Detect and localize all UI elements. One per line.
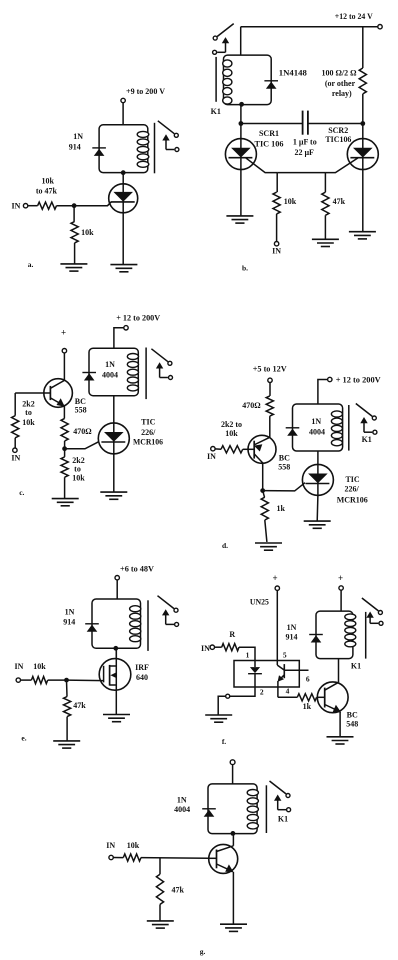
- relay coil K1 d: [293, 404, 343, 451]
- svg-text:22 µF: 22 µF: [294, 148, 314, 157]
- opto LED f: [254, 661, 256, 668]
- svg-text:6: 6: [306, 675, 310, 684]
- resistor 2k2-10k d: [221, 446, 243, 453]
- wire + to transistor c: [63, 353, 65, 381]
- svg-text:K1: K1: [351, 662, 361, 671]
- resistor 2k2-10k input c: [14, 393, 16, 416]
- transistor BC558 c: [44, 379, 73, 408]
- wire node to SCR gate c: [65, 442, 99, 449]
- ground 47k b: [312, 238, 339, 240]
- wire resistor to ground c: [64, 477, 66, 498]
- node capacitor right b: [360, 121, 365, 126]
- svg-text:K1: K1: [278, 815, 288, 824]
- ground SCR2 b: [349, 231, 376, 233]
- svg-text:1: 1: [246, 651, 250, 660]
- transistor BC548 f: [317, 682, 348, 713]
- diode 1N914 a: [92, 147, 106, 149]
- wire emitter to ground g: [232, 872, 234, 924]
- ground pin2 f: [205, 714, 232, 716]
- wire rail to 47k b: [324, 173, 326, 193]
- resistor 47k e: [66, 680, 69, 696]
- svg-text:f.: f.: [222, 737, 226, 746]
- svg-text:BC: BC: [279, 454, 290, 463]
- wire supply to coil box a: [122, 103, 124, 125]
- relay armature bar e: [147, 600, 149, 651]
- svg-text:IN: IN: [106, 841, 115, 850]
- diode 1N4004 g: [202, 808, 216, 810]
- SCR1 gate wire b: [246, 158, 278, 173]
- svg-text:10k: 10k: [33, 662, 46, 671]
- resistor R f: [222, 644, 239, 651]
- wire cap left b: [241, 123, 303, 125]
- relay coil K a: [99, 125, 148, 173]
- svg-text:SCR2: SCR2: [328, 126, 348, 135]
- svg-text:d.: d.: [222, 541, 228, 550]
- relay contact b (mirrored): [217, 24, 234, 37]
- svg-text:K1: K1: [362, 435, 372, 444]
- wire cap right b: [308, 123, 363, 125]
- svg-text:10k: 10k: [284, 197, 297, 206]
- relay contact f: [362, 598, 379, 611]
- supply terminal a: [121, 98, 125, 102]
- diode 1N914 e: [85, 623, 99, 625]
- input terminal IN d: [211, 447, 215, 451]
- svg-text:4004: 4004: [102, 371, 118, 380]
- svg-text:R: R: [229, 630, 235, 639]
- top supply wire b: [241, 26, 378, 28]
- resistor 10k pulldown a: [73, 206, 75, 222]
- wire IN to resistor a: [28, 205, 38, 207]
- wire + to coil box f: [340, 590, 342, 611]
- svg-text:2: 2: [260, 688, 264, 697]
- SCR TIC226 d: [302, 464, 333, 495]
- svg-text:IN: IN: [15, 662, 24, 671]
- resistor 47k b: [322, 192, 329, 215]
- svg-text:+6 to 48V: +6 to 48V: [120, 563, 155, 573]
- svg-text:g.: g.: [200, 947, 206, 956]
- svg-text:IN: IN: [207, 452, 216, 461]
- relay armature bar a: [154, 123, 156, 174]
- wire rail to 10k b: [276, 173, 278, 193]
- supply terminal e: [115, 576, 119, 580]
- svg-text:4004: 4004: [174, 805, 190, 814]
- ground 1k d: [255, 542, 282, 544]
- svg-text:4: 4: [286, 687, 290, 696]
- svg-text:TIC: TIC: [345, 475, 359, 484]
- svg-text:1N: 1N: [73, 132, 83, 141]
- wire SCR2 cathode to ground b: [362, 169, 364, 231]
- svg-text:548: 548: [346, 720, 358, 729]
- svg-text:558: 558: [278, 463, 290, 472]
- wire IN to 10k g: [113, 857, 123, 859]
- supply terminal d left: [268, 378, 272, 382]
- svg-text:c.: c.: [19, 488, 24, 497]
- ground under SCR a: [110, 264, 137, 266]
- svg-text:100 Ω/2 Ω: 100 Ω/2 Ω: [322, 68, 358, 77]
- wire SCR cathode to ground d: [316, 495, 319, 521]
- svg-text:UN25: UN25: [250, 598, 269, 607]
- svg-text:1k: 1k: [303, 702, 312, 711]
- wire node to collector g: [232, 833, 234, 845]
- svg-text:K1: K1: [211, 107, 221, 116]
- supply terminal c: [124, 326, 128, 330]
- resistor 10k e: [31, 677, 47, 684]
- wire collector to coil f: [338, 659, 340, 683]
- svg-text:5: 5: [283, 651, 287, 660]
- node input junction a: [72, 203, 77, 208]
- wire R to opto LED f: [239, 647, 255, 660]
- wire 1k to ground d: [265, 520, 267, 542]
- node gate junction d: [260, 488, 265, 493]
- wire IN to R f: [215, 646, 222, 648]
- resistor 10k g: [123, 854, 141, 861]
- diode 1N4004 c: [82, 372, 96, 374]
- wire coil to SCR anode a: [122, 173, 124, 184]
- resistor 1k d: [263, 491, 265, 498]
- wire down to coil box b: [240, 27, 242, 55]
- terminal pin2 f: [226, 694, 230, 698]
- svg-text:1N: 1N: [65, 608, 75, 617]
- SCR2 gate wire b: [325, 158, 358, 173]
- diode 1N4148 b: [264, 80, 278, 82]
- svg-text:47k: 47k: [171, 886, 184, 895]
- svg-text:47k: 47k: [73, 701, 86, 710]
- svg-text:640: 640: [136, 673, 148, 682]
- wire resistor to node a: [57, 205, 75, 207]
- node coil bottom b: [239, 102, 244, 107]
- node gate junction e: [64, 678, 69, 683]
- wire pin2 to ground f: [218, 696, 225, 715]
- ground SCR c: [100, 491, 127, 493]
- gate rail b: [277, 172, 325, 174]
- ground left c: [52, 498, 79, 500]
- wire SCR1 cathode to ground b: [240, 169, 242, 216]
- svg-text:to: to: [74, 465, 81, 474]
- base wire c: [15, 392, 44, 394]
- svg-text:+ 12 to 200V: + 12 to 200V: [336, 375, 382, 385]
- resistor 10k-47k a: [38, 202, 57, 209]
- svg-text:470Ω: 470Ω: [73, 427, 92, 436]
- svg-text:+: +: [338, 573, 343, 583]
- wire IN to resistor d: [215, 448, 221, 450]
- relay coil K e: [92, 599, 141, 648]
- supply terminal b: [378, 25, 382, 29]
- wire coil to MOSFET drain e: [115, 648, 117, 659]
- svg-text:to 47k: to 47k: [36, 187, 58, 196]
- resistor 10k b: [273, 192, 280, 214]
- node: coil-SCR junction a: [121, 170, 126, 175]
- pin 6 base lead f: [284, 669, 308, 671]
- SCR TIC226 c: [98, 423, 129, 454]
- svg-text:TIC 106: TIC 106: [255, 139, 284, 148]
- node gate junction c: [62, 446, 67, 451]
- wire 10k to IN b: [276, 214, 278, 242]
- svg-text:47k: 47k: [333, 197, 346, 206]
- wire 470R to emitter d: [269, 416, 271, 437]
- svg-text:1N4148: 1N4148: [279, 69, 307, 78]
- relay contact e: [158, 596, 175, 609]
- SCR Q a: [109, 184, 138, 213]
- svg-text:914: 914: [63, 618, 75, 627]
- svg-text:+5 to 12V: +5 to 12V: [253, 364, 288, 374]
- wire node to SCR gate a: [74, 202, 111, 206]
- wire coil to SCR anode d: [317, 451, 319, 465]
- wire coil to SCR1 b: [240, 104, 242, 139]
- wire SCR cathode to ground a: [122, 214, 124, 265]
- pin 4 emitter wire f: [277, 681, 279, 697]
- relay armature bar g: [265, 785, 267, 833]
- wire node to SCR gate d: [263, 483, 305, 491]
- svg-text:TIC: TIC: [141, 417, 155, 426]
- wire 47k to ground e: [66, 717, 68, 741]
- svg-text:10k: 10k: [81, 228, 94, 237]
- wire IN to 10k e: [21, 679, 32, 681]
- node capacitor left b: [239, 121, 244, 126]
- ground SCR1 b: [226, 215, 253, 217]
- ground under resistor a: [60, 263, 87, 265]
- wire 10k to node e: [48, 679, 67, 681]
- svg-text:BC: BC: [347, 710, 358, 719]
- wire supply to coil box g: [232, 765, 234, 784]
- supply terminal g: [230, 760, 235, 765]
- wire collector to 470R c: [63, 406, 65, 419]
- relay contact a: [158, 121, 175, 134]
- optocoupler box f: [234, 661, 299, 688]
- svg-text:10k: 10k: [127, 841, 140, 850]
- wire + to phototransistor f: [276, 590, 278, 665]
- wire supply to coil box c: [114, 328, 124, 348]
- ground emitter g: [220, 923, 247, 925]
- wire supply to coil box e: [116, 580, 118, 599]
- svg-text:1N: 1N: [287, 623, 297, 632]
- relay armature bar b: [215, 57, 217, 102]
- wire 47k to ground g: [159, 904, 161, 921]
- input terminal IN c: [13, 448, 17, 452]
- relay armature bar f: [365, 612, 367, 659]
- opto phototransistor f: [283, 664, 285, 678]
- svg-text:470Ω: 470Ω: [242, 401, 261, 410]
- resistor 470R d: [266, 396, 273, 416]
- capacitor 1uF-22uF b: [302, 111, 304, 135]
- svg-text:IN: IN: [272, 247, 281, 256]
- pin 2 wire f: [230, 687, 255, 696]
- svg-text:IN: IN: [201, 644, 210, 653]
- svg-text:e.: e.: [21, 734, 26, 743]
- svg-text:1k: 1k: [276, 504, 285, 513]
- relay armature bar d: [348, 405, 350, 451]
- wire resistor to SCR2 b: [362, 94, 364, 139]
- svg-text:+ 12 to 200V: + 12 to 200V: [116, 313, 161, 323]
- MOSFET IRF640 e: [99, 659, 131, 691]
- svg-text:1N: 1N: [105, 360, 115, 369]
- wire 470R to node c: [64, 441, 66, 449]
- svg-text:2k2 to: 2k2 to: [221, 420, 242, 429]
- svg-text:relay): relay): [332, 89, 352, 98]
- resistor 470R c: [61, 418, 68, 441]
- svg-text:SCR1: SCR1: [259, 129, 279, 138]
- ground MOSFET e: [103, 714, 130, 716]
- svg-text:10k: 10k: [72, 474, 85, 483]
- svg-text:+: +: [273, 573, 278, 583]
- svg-text:IN: IN: [11, 454, 20, 463]
- svg-text:IN: IN: [12, 202, 21, 211]
- svg-text:914: 914: [69, 143, 81, 152]
- diode 1N4004 d: [286, 427, 300, 429]
- resistor 47k g: [159, 858, 161, 874]
- SCR1 TIC106 b: [225, 139, 256, 170]
- svg-text:226/: 226/: [344, 485, 359, 494]
- svg-text:10k: 10k: [41, 177, 54, 186]
- svg-text:+: +: [61, 328, 66, 338]
- relay coil K1 g: [208, 784, 257, 834]
- relay contact g: [270, 781, 287, 794]
- svg-text:4004: 4004: [309, 428, 325, 437]
- supply terminal d right: [328, 377, 332, 381]
- svg-text:1 µF to: 1 µF to: [293, 138, 317, 147]
- wire resistor to ground a: [74, 243, 76, 264]
- svg-text:558: 558: [75, 406, 87, 415]
- svg-text:a.: a.: [28, 260, 34, 269]
- node coil-MOSFET junction e: [113, 646, 118, 651]
- wire 10k to base g: [141, 857, 209, 860]
- svg-text:b.: b.: [242, 264, 248, 273]
- svg-text:10k: 10k: [22, 418, 35, 427]
- resistor 1k f: [278, 696, 297, 698]
- transistor NPN g: [209, 844, 238, 873]
- relay contact d: [356, 404, 373, 417]
- ground BC548 f: [327, 736, 354, 738]
- svg-text:to: to: [25, 408, 32, 417]
- wire supply to coil box d: [318, 380, 328, 405]
- svg-text:1N: 1N: [177, 796, 187, 805]
- wire coil box to SCR anode c: [113, 396, 115, 423]
- ground 47k g: [147, 920, 174, 922]
- svg-text:IRF: IRF: [135, 663, 149, 672]
- relay armature bar c: [145, 348, 147, 400]
- svg-text:MCR106: MCR106: [337, 496, 368, 505]
- wire emitter to ground f: [339, 712, 341, 737]
- ground 47k e: [53, 740, 80, 742]
- svg-text:MCR106: MCR106: [133, 438, 163, 447]
- relay coil K1 b: [224, 55, 272, 105]
- wire resistor to IN c: [14, 438, 16, 448]
- SCR2 TIC106 b: [347, 139, 378, 170]
- svg-text:+9 to 200 V: +9 to 200 V: [126, 86, 166, 96]
- wire collector to node d: [262, 463, 264, 491]
- node coil-collector g: [231, 831, 236, 836]
- svg-text:(or other: (or other: [325, 79, 356, 88]
- resistor 100ohm relay b: [362, 27, 364, 68]
- wire node to gate e: [67, 679, 104, 682]
- transistor BC558 d: [248, 435, 276, 463]
- input terminal IN b: [274, 242, 278, 246]
- wire SCR cathode to ground c: [113, 454, 115, 493]
- ground SCR d: [304, 520, 331, 522]
- wire supply to 470R d: [269, 383, 271, 396]
- relay contact c: [151, 349, 168, 362]
- diode 1N914 damper f: [309, 634, 323, 636]
- svg-text:1N: 1N: [311, 417, 321, 426]
- relay coil K1 f: [316, 611, 353, 659]
- resistor 2k2-10k lower c: [64, 449, 66, 457]
- relay coil K c: [89, 348, 138, 396]
- svg-text:914: 914: [286, 633, 298, 642]
- svg-text:10k: 10k: [225, 429, 238, 438]
- svg-text:TIC106: TIC106: [325, 135, 351, 144]
- svg-text:226/: 226/: [141, 428, 156, 437]
- svg-text:+12 to 24 V: +12 to 24 V: [335, 11, 374, 21]
- wire MOSFET source to ground e: [115, 690, 117, 714]
- wire 47k to ground b: [324, 215, 326, 239]
